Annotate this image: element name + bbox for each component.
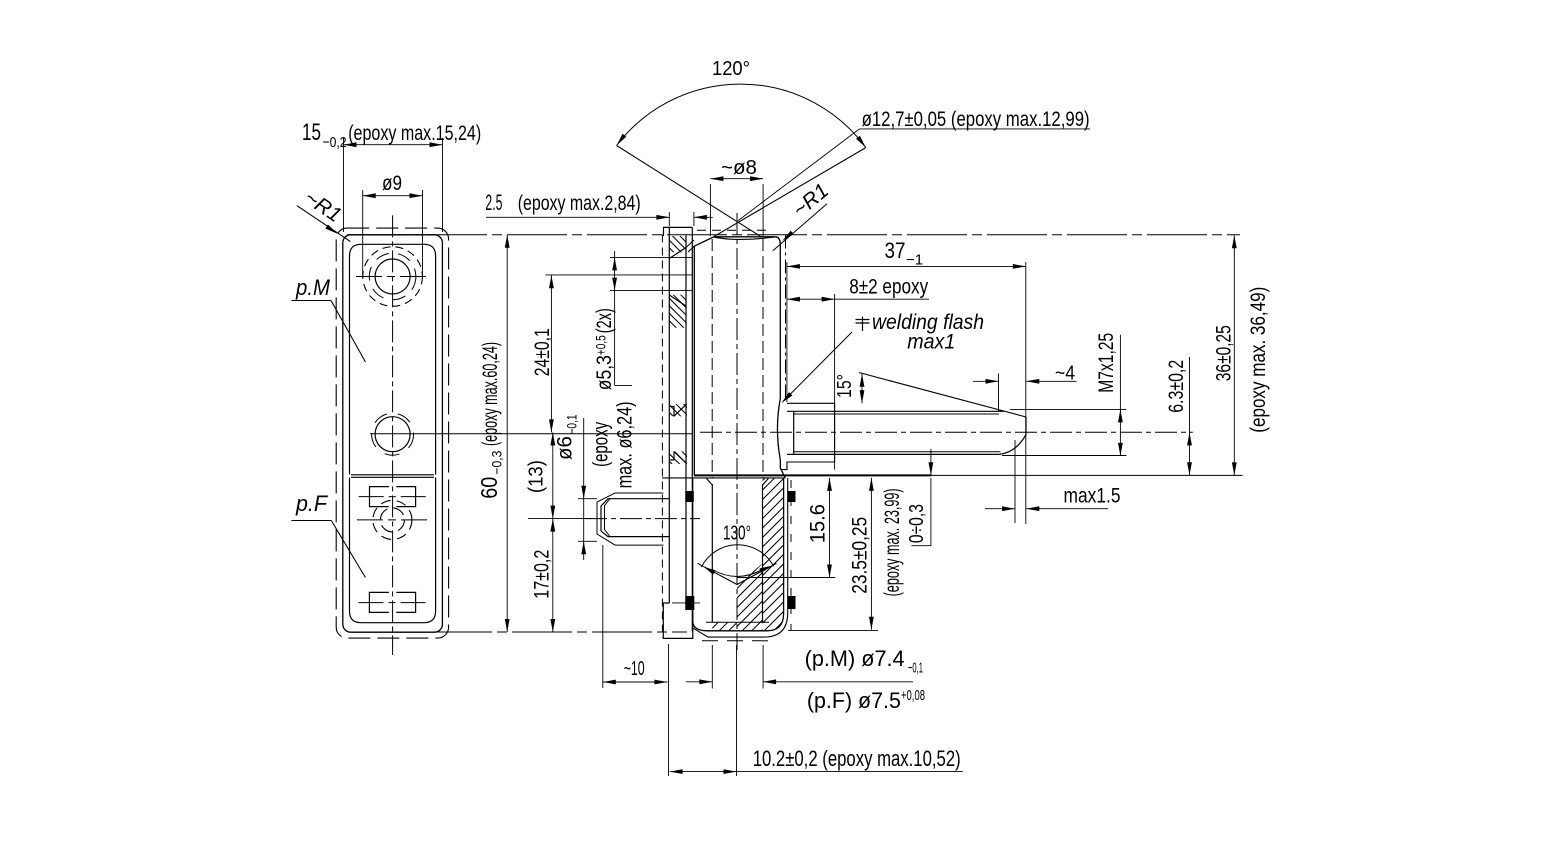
left view: inner outline lower half (p.F) xyxy=(350,478,436,623)
ext line knuckle bottom xyxy=(788,630,878,632)
dim 8±2 epoxy xyxy=(834,294,836,470)
hole right wall xyxy=(762,484,764,622)
cylinder top face xyxy=(714,236,776,238)
pin body outline xyxy=(793,411,795,454)
drill cone flanks 130deg xyxy=(698,563,777,584)
epoxy seal mark left lower xyxy=(685,596,694,610)
svg-text:−0,1: −0,1 xyxy=(564,414,580,434)
svg-text:ø12,7±0,05 (epoxy max.12,99): ø12,7±0,05 (epoxy max.12,99) xyxy=(862,108,1090,131)
svg-text:8±2 epoxy: 8±2 epoxy xyxy=(849,276,928,299)
welding flash leader xyxy=(783,332,852,402)
epoxy dashed outline over cylinder top xyxy=(697,229,770,231)
pin root weld fillet xyxy=(777,399,780,460)
epoxy seal mark right lower xyxy=(788,596,796,609)
hatch bottom band left xyxy=(710,572,740,688)
dim 17±0,2 xyxy=(552,519,554,632)
svg-text:(epoxy max.2,84): (epoxy max.2,84) xyxy=(518,192,641,215)
plate/knuckle gap line xyxy=(691,227,693,631)
130deg arc xyxy=(701,545,773,567)
dim max1.5 xyxy=(1014,440,1016,523)
bushing center line xyxy=(585,518,700,520)
p.F hole bottom line xyxy=(706,621,769,623)
svg-text:60: 60 xyxy=(476,477,502,499)
svg-text:p.M: p.M xyxy=(295,275,331,300)
svg-text:(epoxy max.15,24): (epoxy max.15,24) xyxy=(348,122,481,145)
p.F hole inner circle xyxy=(380,508,404,532)
hidden bore line right (dashed) xyxy=(762,239,764,478)
dim 0÷0,3 xyxy=(930,449,932,475)
svg-text:ø5,3: ø5,3 xyxy=(593,355,616,390)
upper hole bore circle xyxy=(375,259,410,294)
dim 15-0,2 epoxy max 15,24 xyxy=(343,138,345,232)
upper hole countersink circle (dashed, ~R9) xyxy=(363,247,423,307)
left view: nominal plate outline xyxy=(343,235,443,632)
lower knuckle epoxy dashes right xyxy=(790,480,792,630)
svg-text:15: 15 xyxy=(302,119,321,146)
dim ø9 xyxy=(362,190,364,278)
svg-text:37: 37 xyxy=(885,238,906,263)
svg-text:(2x): (2x) xyxy=(593,308,616,333)
svg-text:~10: ~10 xyxy=(624,658,645,680)
projection line upper hole top edge xyxy=(610,256,692,258)
epoxy dashed below bottom xyxy=(702,640,768,642)
bushing epoxy envelope xyxy=(597,493,663,545)
svg-text:max. ø6,24): max. ø6,24) xyxy=(614,401,637,488)
svg-text:+0,08: +0,08 xyxy=(901,687,925,704)
left view: inner outline upper half (p.M) xyxy=(350,244,436,474)
projection line upper hole center xyxy=(545,274,692,276)
svg-text:(epoxy max. 23,99): (epoxy max. 23,99) xyxy=(881,488,904,596)
section plate: epoxy dashed outline left xyxy=(661,235,663,639)
svg-text:p.F: p.F xyxy=(295,491,328,516)
section plate bottom foot xyxy=(663,603,693,638)
p.F hole horizontal center line xyxy=(357,519,428,521)
svg-text:24±0,1: 24±0,1 xyxy=(531,328,554,376)
section plate right face xyxy=(685,236,687,611)
lower square hole center line xyxy=(359,602,428,604)
dim 37-1 xyxy=(786,262,788,402)
dim ø5,3 +0,5 (2x) xyxy=(614,251,616,385)
plate strip hatch (upper hole bottom) xyxy=(668,237,688,362)
cylinder top-left chamfer xyxy=(695,237,714,246)
svg-text:−0,1: −0,1 xyxy=(908,660,923,677)
middle hole center line projecting to section view xyxy=(370,433,692,435)
section plate top tab xyxy=(664,227,693,236)
plate split line xyxy=(351,475,434,478)
hidden bore line left (dashed) xyxy=(711,239,713,478)
lower knuckle nominal outline xyxy=(693,478,784,631)
middle hole outer arc circle xyxy=(372,413,414,455)
svg-text:(epoxy: (epoxy xyxy=(590,422,613,467)
svg-text:15°: 15° xyxy=(834,374,856,398)
dim 6.3±0,2 xyxy=(1189,357,1191,475)
projection line lower square hole center xyxy=(672,602,700,604)
bushing outline xyxy=(601,499,669,537)
plate strip hatch (upper hole top) xyxy=(668,194,688,289)
dim (p.M) ø7.4-0,1 / (p.F) ø7.5+0,08 xyxy=(711,645,713,689)
120 deg arc xyxy=(617,84,866,148)
left view: epoxy max outline (dashed rounded rect) xyxy=(336,228,448,638)
svg-text:M7x1,25: M7x1,25 xyxy=(1095,333,1118,393)
plate strip hatch (middle hole bottom) xyxy=(668,415,688,503)
svg-text:0÷0,3: 0÷0,3 xyxy=(906,504,928,543)
svg-text:−0,2: −0,2 xyxy=(323,134,347,151)
cylinder left edge xyxy=(693,246,695,476)
svg-text:max1.5: max1.5 xyxy=(1064,484,1121,507)
svg-text:120°: 120° xyxy=(712,58,750,80)
hole mouth chamfers xyxy=(707,479,769,486)
drill cone line B xyxy=(714,148,866,237)
svg-text:~4: ~4 xyxy=(1055,363,1075,385)
svg-text:36±0,25: 36±0,25 xyxy=(1213,325,1236,381)
epoxy outline around pin root xyxy=(781,403,834,469)
dim 60-0,3 xyxy=(506,235,508,632)
dim 15.6 xyxy=(829,478,831,578)
p.F square hole center line xyxy=(359,496,427,498)
svg-text:(p.F) ø7.5: (p.F) ø7.5 xyxy=(807,688,901,713)
svg-text:17±0,2: 17±0,2 xyxy=(531,550,554,599)
svg-text:130°: 130° xyxy=(723,523,751,545)
p.F upper square hole (edges with center-line gaps) xyxy=(370,487,416,507)
countersink cone upper hole xyxy=(669,248,686,307)
dim 2.5 epoxy max 2,84 xyxy=(668,212,670,226)
middle hole circle xyxy=(375,417,410,452)
welding flash symbol xyxy=(856,317,870,332)
cylinder right edge lower + flare xyxy=(780,460,785,478)
svg-text:23.5±0,25: 23.5±0,25 xyxy=(849,517,872,594)
dim ~4 xyxy=(998,374,1000,412)
upper hole horizontal center line xyxy=(356,276,429,278)
plate strip hatch (middle hole top) xyxy=(668,366,688,454)
svg-text:~ø8: ~ø8 xyxy=(721,157,757,179)
cylinder top countersink rim arc xyxy=(714,237,775,239)
lower knuckle top line xyxy=(662,477,785,479)
countersink cone middle hole xyxy=(674,404,687,464)
plate vertical center line xyxy=(392,215,394,655)
bottom reference center line xyxy=(352,631,687,633)
dim ø6 xyxy=(578,498,597,500)
lower knuckle epoxy outline bottom xyxy=(693,478,788,637)
drill bottom arc xyxy=(712,570,762,577)
svg-text:+0,5: +0,5 xyxy=(593,335,609,355)
hatch below drill cone right xyxy=(735,456,765,686)
dim 24±0,1 xyxy=(550,275,552,432)
projection line upper hole bottom edge xyxy=(610,290,692,292)
weld joint detail top xyxy=(686,240,695,252)
top reference center line xyxy=(347,234,1240,236)
dim ~10 xyxy=(602,545,604,688)
dim 36±0,25 xyxy=(1233,235,1235,475)
dim 15deg xyxy=(861,374,863,404)
middle hole face steps xyxy=(670,407,674,460)
bushing nose inner contour xyxy=(605,499,611,537)
dim 10.2±0,2 xyxy=(736,645,738,776)
epoxy dash-dot outline right of cylinder xyxy=(785,235,787,399)
upper hole mid circle (dashed) xyxy=(369,253,416,300)
epoxy seal mark right upper xyxy=(788,491,796,502)
p.F hole dashed circle (bushing hole) xyxy=(373,500,412,539)
face line thin part to 36 dim xyxy=(931,474,1243,476)
pin tip xyxy=(999,417,1026,454)
svg-text:(p.M) ø7.4: (p.M) ø7.4 xyxy=(805,646,905,671)
dim (13) xyxy=(552,432,554,518)
svg-text:ø6: ø6 xyxy=(554,436,577,460)
dim ø12,7 leader xyxy=(860,128,1091,130)
cylinder vertical center line xyxy=(736,213,738,650)
pin center line xyxy=(700,431,1193,433)
drill cone line A xyxy=(617,146,762,237)
epoxy seal mark left upper xyxy=(685,491,694,502)
svg-text:max1: max1 xyxy=(907,331,955,354)
face line (pin shoulder plane) thick part xyxy=(694,474,931,476)
hatch lower knuckle right band xyxy=(758,284,788,685)
svg-text:15.6: 15.6 xyxy=(807,504,830,543)
svg-text:(13): (13) xyxy=(526,460,548,493)
section plate left face xyxy=(668,227,670,603)
ext line drill tip xyxy=(737,577,835,579)
svg-text:6.3±0,2: 6.3±0,2 xyxy=(1165,360,1188,413)
lower square hole (edges with center-line gaps) xyxy=(369,592,415,612)
svg-text:−1: −1 xyxy=(906,252,923,269)
svg-text:(epoxy max.60,24): (epoxy max.60,24) xyxy=(479,342,502,446)
dim M7x1,25 xyxy=(1010,408,1126,410)
hole left wall xyxy=(711,484,713,622)
svg-text:−0,3: −0,3 xyxy=(489,450,505,474)
svg-text:2.5: 2.5 xyxy=(485,190,502,215)
dim 23.5±0,25 xyxy=(870,478,872,630)
cylinder top-right corner radius xyxy=(776,237,780,245)
svg-text:10.2±0,2 (epoxy max.10,52): 10.2±0,2 (epoxy max.10,52) xyxy=(753,746,961,771)
svg-text:(epoxy max. 36,49): (epoxy max. 36,49) xyxy=(1247,287,1270,433)
svg-text:ø9: ø9 xyxy=(382,172,402,195)
cylinder right edge upper xyxy=(779,245,781,399)
dim ~ø8 xyxy=(709,184,711,236)
pin thread runout taper 15deg xyxy=(859,373,1026,418)
